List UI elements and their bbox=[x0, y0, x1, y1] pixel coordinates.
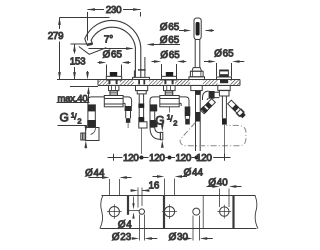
label diameter 65 (spout) bbox=[146, 43, 180, 46]
plan slot 1 bbox=[127, 196, 129, 215]
valve element 1 below deck assembly bbox=[81, 85, 123, 140]
svg-text:Ø65: Ø65 bbox=[160, 50, 180, 61]
dimension chain 120 x4 bbox=[108, 153, 231, 162]
label diameter 65 (element 4 diverter) bbox=[204, 60, 244, 76]
valve element 3 above deck bbox=[162, 72, 177, 84]
valve element 1 above deck bbox=[106, 72, 121, 84]
dimension 16 bbox=[131, 188, 150, 208]
svg-text:120: 120 bbox=[196, 153, 212, 164]
svg-text:max.40: max.40 bbox=[58, 93, 88, 104]
diverter element 4 above deck bbox=[217, 70, 232, 84]
plan hole 4 (d30) bbox=[193, 208, 200, 215]
dimension 230 bbox=[88, 8, 141, 11]
handshower bbox=[194, 18, 201, 68]
svg-text:G: G bbox=[155, 113, 164, 127]
valve element 1 right outlet bbox=[123, 97, 132, 128]
svg-text:Ø4: Ø4 bbox=[118, 219, 132, 230]
svg-text:Ø65: Ø65 bbox=[160, 22, 180, 33]
label G 1/2 right bbox=[161, 124, 164, 148]
valve element 3 right outlet bbox=[179, 97, 190, 125]
plan view strip bbox=[100, 196, 258, 229]
dimension 279 bbox=[58, 18, 109, 80]
handshower hose loop bbox=[180, 123, 246, 146]
max.40 label bbox=[57, 71, 90, 103]
dimension 230 extension lines bbox=[88, 12, 141, 41]
handshower holder below deck / hose coupling bbox=[191, 85, 202, 151]
plan hidden edge line bbox=[202, 196, 204, 229]
dimension d30 hole4 bbox=[184, 216, 213, 241]
label diameter 65 (element 1) bbox=[98, 61, 131, 76]
svg-text:120: 120 bbox=[123, 153, 139, 164]
label diameter 65 (element 3) bbox=[152, 60, 187, 76]
svg-text:7°: 7° bbox=[104, 35, 113, 46]
handshower holder bbox=[189, 68, 205, 80]
plan slot 2 bbox=[163, 196, 165, 229]
svg-text:120: 120 bbox=[149, 153, 165, 164]
valve element 3 centerline stub bbox=[169, 107, 171, 113]
dimension d40 hole5 bbox=[207, 185, 242, 207]
label G 1/2 left bbox=[58, 125, 88, 148]
spout tail below deck bbox=[136, 85, 148, 154]
svg-text:Ø44: Ø44 bbox=[184, 168, 204, 179]
plan slot 3 bbox=[232, 196, 234, 229]
svg-text:16: 16 bbox=[148, 181, 159, 192]
svg-text:2: 2 bbox=[77, 116, 81, 125]
svg-text:Ø65: Ø65 bbox=[214, 48, 234, 59]
plan d4 pointer bbox=[129, 197, 139, 219]
spout flange bbox=[133, 70, 150, 85]
deck top extension line bbox=[57, 79, 98, 81]
svg-text:230: 230 bbox=[106, 5, 122, 16]
svg-text:G: G bbox=[60, 111, 69, 125]
plan hole 5 (d40) bbox=[217, 205, 231, 219]
valve element 3 below deck assembly bbox=[150, 85, 180, 139]
svg-text:Ø44: Ø44 bbox=[85, 168, 105, 179]
dimension 153 bbox=[71, 44, 87, 80]
label diameter 65 (handshower holder) bbox=[179, 29, 214, 32]
svg-text:Ø30: Ø30 bbox=[169, 232, 189, 243]
dimension d23 hole2 bbox=[132, 215, 158, 241]
svg-text:Ø23: Ø23 bbox=[112, 232, 132, 243]
svg-text:Ø65: Ø65 bbox=[160, 35, 180, 46]
svg-text:120: 120 bbox=[175, 153, 191, 164]
dimension 7 degrees bbox=[79, 47, 134, 55]
deck bottom extension line bbox=[70, 86, 98, 88]
spout bbox=[85, 20, 145, 77]
svg-text:153: 153 bbox=[70, 56, 86, 67]
deck slab side view bbox=[98, 80, 240, 86]
dimension d44 hole3 bbox=[153, 175, 188, 195]
svg-text:279: 279 bbox=[48, 31, 64, 42]
svg-text:2: 2 bbox=[173, 119, 177, 128]
dimension d44 hole1 bbox=[89, 176, 132, 195]
plan hole 2 (d23) bbox=[139, 209, 144, 214]
plan hole 1 (spout, d44) bbox=[107, 204, 122, 219]
diverter element 4 below deck bbox=[200, 85, 247, 154]
svg-text:Ø65: Ø65 bbox=[103, 49, 123, 60]
plan hole 3 (d44) bbox=[162, 204, 177, 219]
svg-text:Ø40: Ø40 bbox=[208, 177, 228, 188]
